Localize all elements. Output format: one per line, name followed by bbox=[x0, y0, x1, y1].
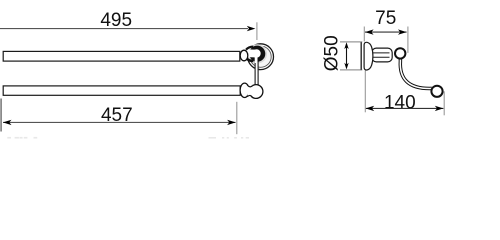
svg-text:140: 140 bbox=[384, 92, 416, 113]
svg-text:Ø50: Ø50 bbox=[322, 35, 343, 71]
svg-text:75: 75 bbox=[375, 8, 396, 29]
svg-text:457: 457 bbox=[101, 105, 133, 126]
svg-text:495: 495 bbox=[100, 10, 132, 31]
